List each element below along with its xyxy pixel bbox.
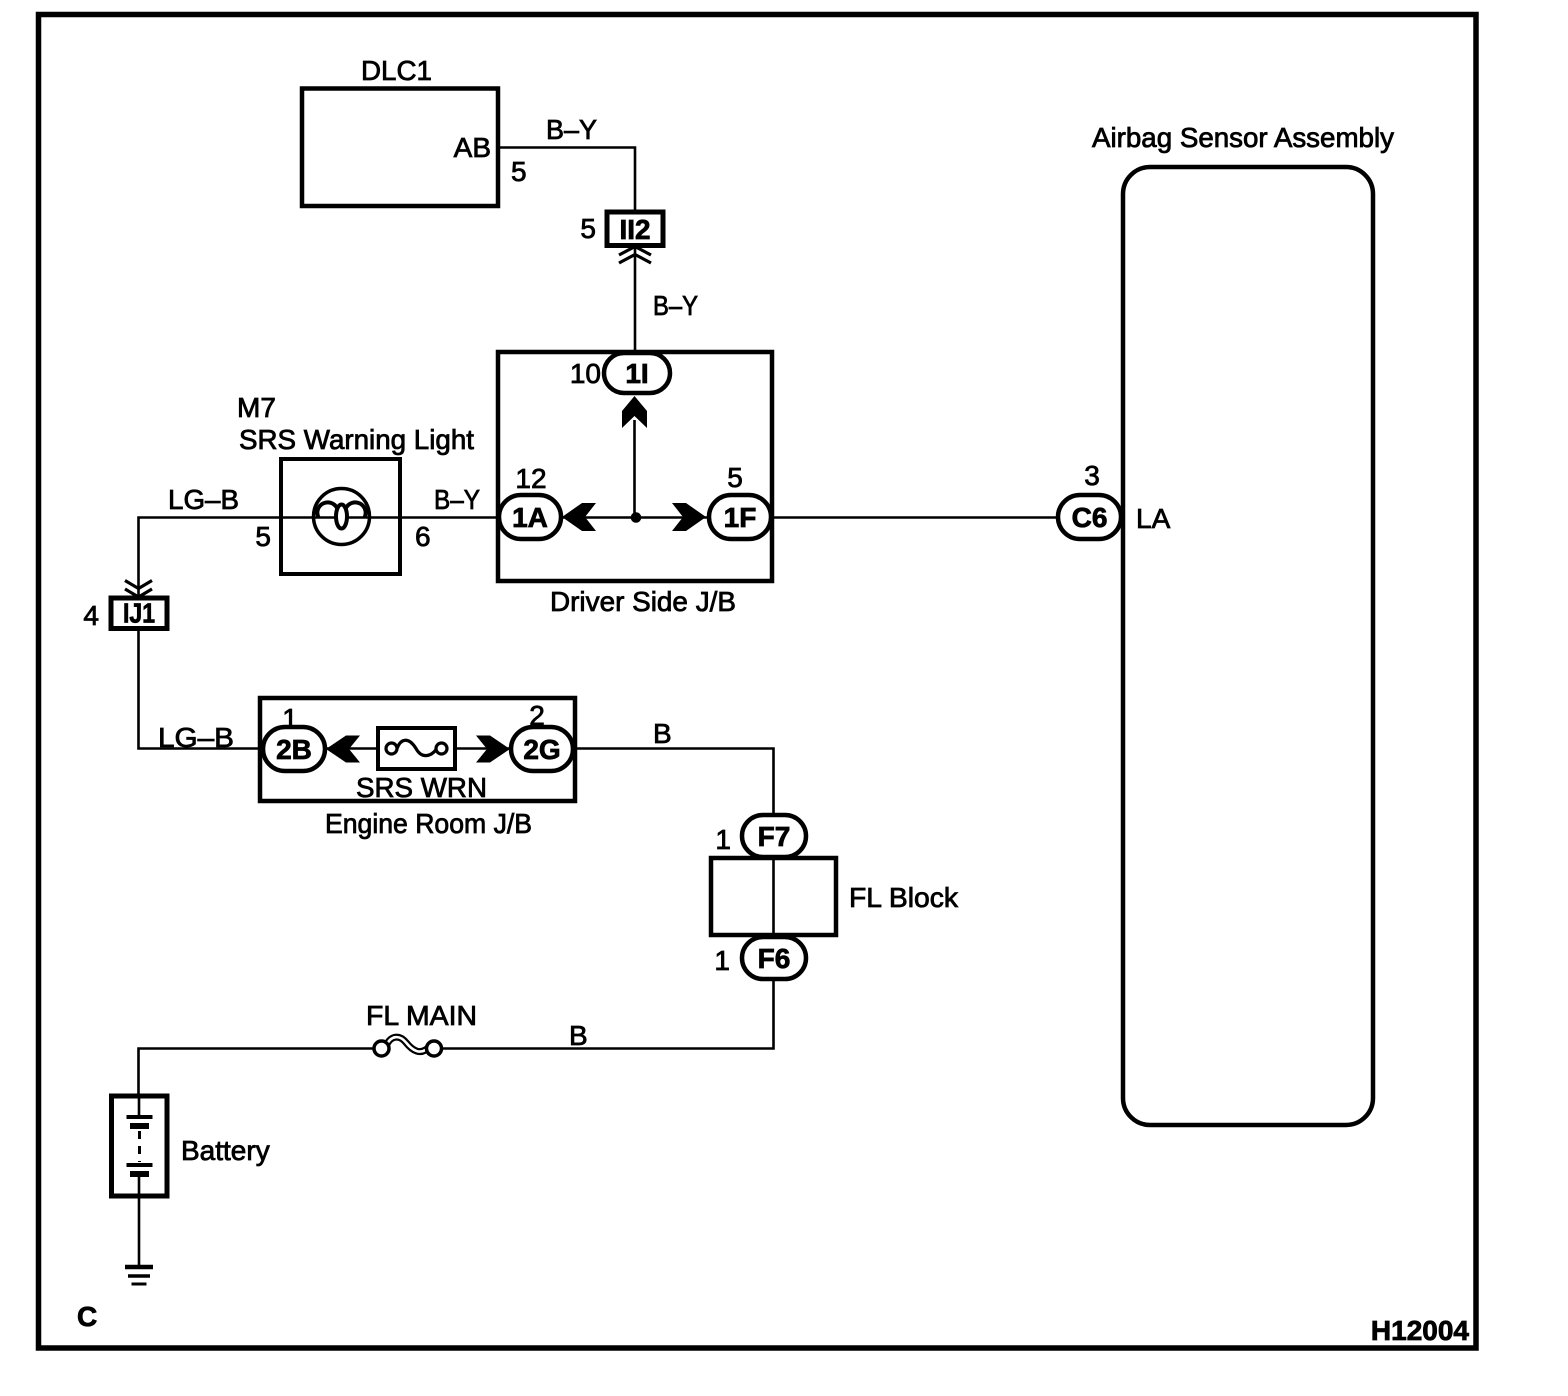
pin F6 oval: [742, 937, 806, 979]
connector chevrons below II2: [619, 247, 651, 264]
svg-text:H12004: H12004: [1371, 1315, 1470, 1346]
svg-text:12: 12: [515, 463, 546, 494]
svg-text:C6: C6: [1072, 502, 1108, 533]
svg-text:FL MAIN: FL MAIN: [366, 1000, 477, 1031]
svg-text:DLC1: DLC1: [361, 55, 432, 86]
arrow left toward 2B: [326, 736, 360, 763]
svg-text:1: 1: [715, 824, 731, 855]
svg-text:Engine Room J/B: Engine Room J/B: [325, 808, 532, 839]
wire 2B to 2G through fuse inside Engine Room J/B: [322, 747, 514, 750]
pin F7 oval: [742, 815, 806, 857]
Airbag Sensor Assembly box: [1092, 122, 1394, 1125]
svg-text:3: 3: [1084, 460, 1100, 491]
wire SRS warning light to Driver Side J/B pin 1A (B-Y): [281, 516, 505, 519]
lamp M7 SRS Warning Light: [237, 392, 474, 574]
svg-text:LG–B: LG–B: [158, 722, 234, 753]
svg-text:AB: AB: [454, 132, 491, 163]
svg-text:5: 5: [580, 213, 596, 244]
wire LG-B from node to SRS warning light: [139, 518, 282, 599]
svg-text:1A: 1A: [512, 502, 548, 533]
svg-text:Battery: Battery: [181, 1135, 270, 1166]
svg-text:C: C: [77, 1301, 97, 1332]
svg-text:Airbag Sensor Assembly: Airbag Sensor Assembly: [1092, 122, 1394, 153]
svg-text:2B: 2B: [276, 734, 312, 765]
wire FL Block pin F6 down to bottom rail (B): [441, 976, 774, 1049]
svg-text:1F: 1F: [724, 502, 757, 533]
svg-text:5: 5: [255, 521, 271, 552]
svg-text:1I: 1I: [625, 358, 648, 389]
svg-text:Driver Side J/B: Driver Side J/B: [550, 586, 736, 617]
pin 1I oval: [604, 353, 670, 393]
wire battery to ground: [138, 1196, 141, 1267]
svg-text:B–Y: B–Y: [546, 114, 597, 145]
svg-text:LG–B: LG–B: [168, 484, 239, 515]
svg-text:F6: F6: [758, 943, 791, 974]
svg-text:FL Block: FL Block: [849, 882, 959, 913]
wire Engine Room J/B pin 2G to FL Block pin F7 (B): [570, 749, 774, 819]
wire 1A to 1F inside Driver Side J/B: [556, 516, 714, 519]
arrow left toward 1A: [562, 503, 596, 531]
svg-text:LA: LA: [1136, 503, 1171, 534]
fusible link FL MAIN: [366, 1000, 477, 1056]
FL Block box: [711, 858, 959, 935]
pin 2G oval: [511, 727, 573, 771]
wire connector IJ1 to Engine Room J/B pin 2B (LG-B): [139, 628, 267, 749]
svg-text:B–Y: B–Y: [434, 484, 480, 515]
wire arrow to junction: [633, 420, 636, 518]
svg-text:B: B: [569, 1020, 588, 1051]
fuse SRS WRN: [356, 728, 487, 803]
arrow right toward 2G: [476, 736, 510, 763]
ground: [125, 1267, 153, 1284]
pin C6 oval: [1058, 495, 1121, 539]
wire bottom rail from FL MAIN to battery: [139, 1049, 376, 1097]
svg-text:M7: M7: [237, 392, 276, 423]
connector DLC1 box: [302, 55, 498, 206]
svg-text:SRS Warning Light: SRS Warning Light: [239, 424, 474, 455]
wire Driver Side J/B pin 1F to Airbag Sensor Assembly C6 (B-Y): [766, 516, 1123, 519]
svg-text:2: 2: [529, 700, 545, 731]
pin 2B oval: [263, 727, 325, 771]
svg-text:IJ1: IJ1: [123, 598, 155, 629]
wire connector II2 to Driver Side J/B pin 1I (B-Y): [634, 245, 637, 353]
connector chevrons above IJ1: [125, 581, 152, 598]
wire DLC1 AB to connector II2 (B-Y): [498, 148, 635, 213]
svg-text:2G: 2G: [523, 734, 560, 765]
connector II2: [607, 212, 663, 246]
Driver Side J/B box: [498, 352, 772, 617]
svg-text:1: 1: [282, 703, 298, 734]
svg-text:B–Y: B–Y: [653, 290, 698, 321]
battery: [112, 1096, 270, 1196]
svg-text:4: 4: [83, 600, 99, 631]
arrow right toward 1F: [672, 503, 706, 531]
svg-text:B: B: [653, 718, 672, 749]
svg-text:II2: II2: [620, 214, 651, 245]
svg-text:10: 10: [570, 358, 601, 389]
pin 1A oval: [499, 495, 561, 539]
svg-text:6: 6: [415, 521, 431, 552]
pin 1F oval: [709, 495, 771, 539]
svg-text:1: 1: [714, 945, 730, 976]
arrow up inside Driver Side J/B: [622, 396, 647, 428]
svg-text:F7: F7: [758, 821, 791, 852]
svg-text:5: 5: [727, 462, 743, 493]
junction dot: [631, 512, 642, 523]
connector IJ1: [111, 598, 167, 629]
svg-text:5: 5: [511, 156, 527, 187]
svg-text:SRS WRN: SRS WRN: [356, 772, 487, 803]
Engine Room J/B box: [260, 698, 575, 839]
